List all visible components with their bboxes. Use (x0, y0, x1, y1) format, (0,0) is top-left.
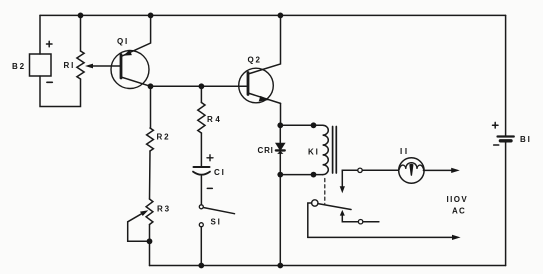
wire coil top jumper (280, 124, 322, 126)
svg-text:R2: R2 (157, 132, 171, 141)
svg-text:Q2: Q2 (248, 56, 262, 65)
node dot CR1-line/rail (277, 263, 283, 269)
terminal circle lamp side (358, 168, 362, 172)
relay armature pivot (312, 200, 318, 206)
svg-text:R4: R4 (207, 115, 222, 124)
wire R4 to C1 (200, 133, 202, 167)
svg-text:SI: SI (211, 217, 222, 226)
node dot rail/Q1 (148, 13, 154, 19)
node A (Q1 collector junction) (148, 83, 154, 89)
svg-text:RI: RI (64, 61, 76, 70)
node dot coil bottom tap (277, 172, 283, 178)
capacitor C1 (193, 155, 213, 189)
node dot K1 top (311, 122, 317, 128)
svg-text:II: II (400, 147, 410, 156)
resistor R2 (147, 128, 154, 151)
wire S1 to rail (200, 227, 202, 266)
wire pivot to lower run (308, 203, 312, 237)
svg-text:B2: B2 (12, 62, 26, 71)
wire lamp to AC arrow (423, 168, 459, 173)
wire bottom rail (150, 265, 506, 267)
wire R2 to R3 (149, 151, 152, 199)
switch S1 (199, 205, 234, 227)
svg-text:R3: R3 (157, 205, 171, 214)
wire node A down to R2 (150, 86, 152, 128)
wire B1 bottom (505, 143, 507, 266)
battery B1 (493, 122, 514, 145)
wire B1 top (505, 15, 507, 135)
upper contact arrow (340, 171, 345, 193)
node dot R4 top (199, 83, 205, 89)
svg-text:IIOV: IIOV (447, 195, 469, 204)
wire coil bottom jumper (280, 174, 322, 176)
lower contact arrow (340, 210, 379, 222)
resistor R1 (potentiometer) (77, 51, 84, 79)
wire top rail (40, 14, 506, 16)
wire left loop (B2 branch) (40, 15, 81, 106)
node dot S1/rail (198, 263, 204, 269)
relay coil K1 (323, 125, 337, 174)
svg-text:AC: AC (452, 206, 466, 215)
wire armature to AC arrow (308, 235, 461, 240)
node dot R3 bottom (147, 238, 153, 244)
svg-text:CRI: CRI (258, 146, 274, 155)
diode CR1 (276, 143, 285, 154)
resistor R4 (198, 103, 205, 134)
wire R3 to bottom rail (149, 225, 151, 266)
resistor R3 (rheostat) (146, 199, 153, 225)
wire R4 top (200, 86, 202, 102)
R3 wiper arrow and loop (128, 210, 150, 241)
wire lamp feed (342, 169, 398, 172)
node dot coil top tap (277, 122, 283, 128)
wire node A to Q2 base (151, 85, 247, 87)
relay blade (318, 204, 351, 210)
svg-text:BI: BI (520, 135, 532, 144)
node dot rail/R1 (78, 13, 84, 19)
svg-text:QI: QI (117, 37, 129, 46)
terminal circle NO (358, 220, 362, 224)
node dot rail/Q2 (278, 13, 284, 19)
wire C1 to S1 (200, 176, 202, 205)
node dot K1 bottom (311, 172, 317, 178)
transistor Q2 (239, 15, 281, 125)
lamp I1 (399, 158, 424, 183)
dashed actuation link (324, 179, 326, 204)
transistor Q1 (111, 15, 151, 88)
R1 wiper arrow (85, 64, 121, 69)
svg-text:KI: KI (308, 148, 320, 157)
svg-text:CI: CI (214, 168, 226, 177)
wire CR1 branch vertical (279, 125, 281, 265)
battery B2 (30, 41, 53, 82)
wire R1 top to rail (80, 15, 82, 51)
